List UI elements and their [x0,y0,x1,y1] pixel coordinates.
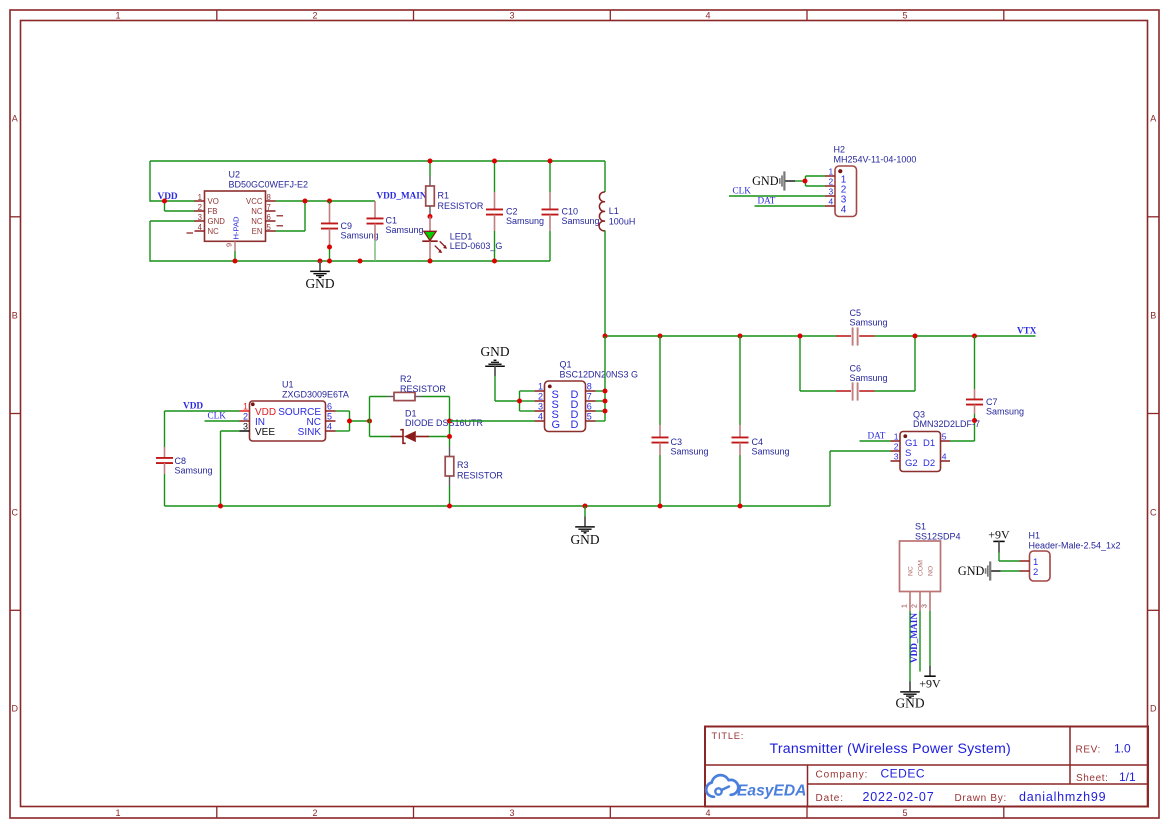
svg-text:1: 1 [115,808,120,818]
svg-text:C: C [12,507,19,517]
svg-text:100uH: 100uH [609,217,636,227]
wire R3 to bottom rail [449,486,451,506]
svg-text:CEDEC: CEDEC [881,767,926,781]
svg-text:1: 1 [198,193,202,202]
connector H2 [825,166,857,217]
wire DAT to H2 pin 4 [755,205,826,207]
svg-text:NC: NC [208,227,220,236]
wire C9 connections [329,201,331,261]
wire R1 top [429,161,431,176]
wire S1 pin3 to +9V [929,611,931,666]
svg-text:L1: L1 [609,206,619,216]
svg-text:VO: VO [208,197,219,206]
svg-text:D: D [571,419,579,431]
svg-text:U1: U1 [282,379,294,389]
svg-text:NC: NC [908,566,915,576]
svg-text:2: 2 [912,604,919,608]
svg-text:8: 8 [587,382,592,392]
svg-text:1: 1 [894,432,899,442]
title block Company cell [816,767,926,781]
svg-text:GND: GND [305,276,334,291]
svg-text:MH254V-11-04-1000: MH254V-11-04-1000 [834,154,917,164]
svg-text:Samsung: Samsung [986,406,1024,416]
svg-text:1: 1 [115,11,120,21]
svg-text:BSC12DN20NS3 G: BSC12DN20NS3 G [560,370,639,380]
label Q1 [560,359,639,379]
wire U1 output tie [336,411,370,431]
capacitor C4 [732,425,790,456]
wire EN tie to VCC [276,201,306,231]
svg-text:FB: FB [208,207,218,216]
inductor L1 [599,161,635,231]
frame row ticks right [1148,217,1159,611]
svg-text:5: 5 [902,808,907,818]
svg-text:6: 6 [587,402,592,412]
junction dot R1 bottom [428,214,433,219]
label Q3 [913,409,980,429]
svg-text:RESISTOR: RESISTOR [457,470,503,480]
label U1 [282,379,349,399]
svg-text:9: 9 [225,243,234,247]
junction dots bottom rail [218,504,743,509]
svg-text:2: 2 [198,203,202,212]
svg-text:3: 3 [243,422,248,432]
svg-text:C3: C3 [671,437,683,447]
svg-text:8: 8 [267,193,271,202]
wire DAT to Q3 G1 [860,440,891,442]
svg-text:Q3: Q3 [913,409,925,419]
svg-text:2: 2 [243,412,248,422]
svg-text:TITLE:: TITLE: [712,731,745,741]
label U2 [229,170,309,190]
svg-text:4: 4 [538,412,543,422]
label S1 [915,521,961,541]
title block TITLE text [712,731,1011,757]
connector H1 [1020,551,1051,581]
svg-text:D1: D1 [923,438,935,449]
capacitor C9 [321,204,379,247]
junction dot H2 gnd [803,179,808,184]
ground flag H1 [958,561,1001,580]
svg-text:2: 2 [312,11,317,21]
svg-text:BD50GC0WEFJ-E2: BD50GC0WEFJ-E2 [229,180,309,190]
svg-text:1.0: 1.0 [1114,742,1131,756]
svg-text:6: 6 [327,402,332,412]
svg-text:4: 4 [829,197,834,207]
svg-text:1: 1 [829,167,834,177]
IC U1 [240,401,336,441]
svg-text:LED1: LED1 [450,232,473,242]
title block border [705,727,1148,807]
junction dots R2/D1 vertical [447,419,452,440]
wire R2 branch up [369,397,371,422]
junction dots top rail [428,159,553,164]
svg-text:COM: COM [918,560,925,576]
wire bottom rail to Q3 S [830,451,891,506]
svg-text:Q1: Q1 [560,359,572,369]
svg-text:VDD_MAIN: VDD_MAIN [909,613,919,663]
svg-text:5: 5 [902,11,907,21]
wire VEE to bottom rail [221,431,240,506]
svg-text:VDD: VDD [183,402,203,412]
junction dots VTX bus [603,334,978,339]
svg-text:VDD_MAIN: VDD_MAIN [376,190,426,200]
svg-text:EN: EN [252,227,263,236]
svg-text:REV:: REV: [1076,745,1101,756]
svg-text:A: A [12,113,18,123]
svg-text:5: 5 [327,412,332,422]
wire C2 top [494,161,496,192]
title block Date cell [816,790,1107,804]
svg-text:danialhmzh99: danialhmzh99 [1019,790,1106,804]
wire C6 loop right [914,336,916,391]
frame column ticks top [217,10,1004,21]
wire C10 bottom [549,231,551,261]
wire H2 gnd to pins 1-2 [795,176,825,186]
svg-text:1: 1 [538,382,543,392]
wire Q1 drains to L1 vertical [596,336,606,421]
junction dot C9 bottom lead [327,245,332,250]
junction dots VCC row [303,199,333,204]
svg-text:VCC: VCC [246,197,263,206]
wire VTX bus right segment [875,335,1036,337]
wire C7 bottom to Q3 [950,414,975,441]
junction dots U1 output [347,419,372,424]
junction dot VDD/pin1 [162,199,167,204]
svg-text:SINK: SINK [298,427,322,438]
svg-text:NC: NC [251,207,263,216]
svg-text:C2: C2 [506,207,518,217]
svg-text:DMN32D2LDF-7: DMN32D2LDF-7 [913,419,980,429]
title block REV cell [1076,742,1132,756]
ground flag H2 [752,171,795,190]
capacitor C7 [966,389,1024,416]
svg-text:GND: GND [752,174,779,188]
svg-text:DAT: DAT [758,195,776,205]
svg-text:CLK: CLK [733,185,752,195]
svg-text:D: D [12,703,19,713]
svg-text:D1: D1 [405,408,417,418]
svg-text:C10: C10 [562,207,579,217]
svg-text:5: 5 [267,223,272,232]
svg-text:1: 1 [243,402,248,412]
svg-text:G: G [552,419,561,431]
svg-text:DIODE DSS16UTR: DIODE DSS16UTR [405,418,484,428]
svg-text:4: 4 [705,11,710,21]
EasyEDA logo [706,775,806,800]
svg-text:Samsung: Samsung [850,317,888,327]
svg-text:Samsung: Samsung [562,216,600,226]
IC U2 [187,191,284,251]
svg-text:Sheet:: Sheet: [1076,773,1109,784]
svg-text:CLK: CLK [208,410,227,420]
svg-text:VEE: VEE [255,427,275,438]
capacitor C1 [367,201,424,240]
svg-text:5: 5 [942,432,947,442]
frame row letters left [12,113,19,713]
capacitor C2 [486,192,544,231]
svg-text:Drawn By:: Drawn By: [955,793,1007,804]
svg-text:R2: R2 [400,374,412,384]
svg-text:1: 1 [902,604,909,608]
svg-text:2022-02-07: 2022-02-07 [863,790,935,804]
svg-text:DAT: DAT [868,430,886,440]
LED LED1 [422,217,437,262]
svg-text:Samsung: Samsung [671,446,709,456]
svg-text:4: 4 [198,223,203,232]
svg-text:GND: GND [958,564,985,578]
diode D1 [370,408,484,443]
wire C3 bottom [659,455,661,506]
svg-text:2: 2 [538,392,543,402]
junction dots bottom rail [233,259,498,264]
wire D1 branch down [369,421,371,437]
svg-text:3: 3 [198,213,202,222]
svg-text:GND: GND [895,696,924,711]
svg-text:Samsung: Samsung [386,225,424,235]
wire U2 VCC output [276,200,376,202]
power flag +9V (S1) [919,666,941,690]
wire C2 bottom [494,231,496,261]
label H1 [1029,531,1121,551]
wire Q1 gate from D1/R3 [450,420,535,422]
capacitor C5 [836,308,888,346]
svg-text:2: 2 [1033,567,1038,578]
svg-text:C5: C5 [850,308,862,318]
svg-text:RESISTOR: RESISTOR [438,201,484,211]
svg-text:2: 2 [829,177,834,187]
svg-text:C1: C1 [386,216,398,226]
svg-text:C4: C4 [752,437,764,447]
svg-text:3: 3 [829,187,834,197]
wire S1 pin2 VDD_MAIN [919,611,921,672]
svg-text:2: 2 [312,808,317,818]
ground flag Q1 [480,344,509,376]
wire U2 GND pin to left [150,221,195,262]
svg-text:+9V: +9V [988,528,1010,542]
resistor R3 [445,447,503,487]
capacitor C8 wires [164,474,166,506]
svg-text:B: B [12,310,18,320]
svg-text:Date:: Date: [816,793,844,804]
wire C6 loop left [799,336,801,391]
title block Sheet cell [1076,770,1136,784]
svg-text:R3: R3 [457,460,469,470]
svg-text:6: 6 [267,213,271,222]
svg-text:GND: GND [208,217,226,226]
svg-text:SS12SDP4: SS12SDP4 [915,531,961,541]
svg-text:3: 3 [538,402,543,412]
svg-text:NO: NO [928,566,935,576]
capacitor C6 [800,364,915,401]
svg-text:1/1: 1/1 [1119,770,1136,784]
svg-text:EasyEDA: EasyEDA [737,783,806,800]
svg-text:7: 7 [587,392,592,402]
svg-text:C6: C6 [850,364,862,374]
svg-text:2: 2 [894,442,899,452]
ground flag bottom [570,506,599,547]
svg-text:RESISTOR: RESISTOR [400,384,446,394]
wire VDD to U1 pin 1 [165,411,240,447]
wire Q1 gnd to S pins [495,376,535,411]
svg-text:Transmitter (Wireless Power Sy: Transmitter (Wireless Power System) [770,741,1011,757]
wire L1 to VTX bus [604,230,606,336]
wire C3 top [659,336,661,425]
junction dots Q1 drains [603,389,608,414]
svg-text:A: A [1150,113,1156,123]
svg-text:GND: GND [480,344,509,359]
pale wire C1 to bottom rail [374,240,376,261]
svg-text:+9V: +9V [919,676,941,690]
wire +9V to H1 pin 1 [999,553,1020,562]
svg-text:C9: C9 [341,221,353,231]
svg-text:Samsung: Samsung [506,216,544,226]
svg-text:7: 7 [267,203,271,212]
svg-text:3: 3 [509,11,514,21]
svg-text:3: 3 [509,808,514,818]
svg-text:B: B [1150,310,1156,320]
wire R2/D1 right vertical [449,397,451,447]
svg-text:Samsung: Samsung [752,446,790,456]
frame column ticks bottom [217,807,1004,819]
frame row letters right [1150,113,1157,713]
label H2 [834,144,917,164]
junction dot Q1 S tie [517,399,522,404]
capacitor C10 [542,192,600,231]
wire top-left vertical [149,161,151,202]
ground flag top block [305,261,334,291]
svg-text:Samsung: Samsung [175,466,213,476]
svg-text:S1: S1 [915,521,926,531]
junction dot C7/Q3 [972,418,977,423]
resistor R1 [426,176,484,216]
svg-text:GND: GND [570,532,599,547]
wire C4 top [739,336,741,425]
svg-text:Company:: Company: [816,770,869,781]
wire U2 pin 9 to bottom rail [234,251,236,261]
svg-text:VDD: VDD [158,192,178,202]
LED1 light arrows [435,241,447,253]
wire S1 pin1 to gnd [909,611,911,682]
resistor R2 [370,374,450,401]
svg-text:C7: C7 [986,397,998,407]
wire top block bottom rail [150,260,550,262]
svg-text:R1: R1 [438,191,450,201]
wire to U2 pin 1 [150,200,195,202]
svg-text:ZXGD3009E6TA: ZXGD3009E6TA [282,390,349,400]
svg-text:Header-Male-2.54_1x2: Header-Male-2.54_1x2 [1029,541,1121,551]
svg-text:D: D [1150,703,1157,713]
wire C4 bottom [739,455,741,506]
wire gnd to H1 pin 2 [1001,570,1020,572]
wire VTX bus left segment [605,335,836,337]
svg-text:C: C [1150,507,1157,517]
svg-text:H-PAD: H-PAD [232,216,241,240]
wire C10 top [549,161,551,192]
capacitor C3 [652,425,709,456]
svg-text:3: 3 [894,452,899,462]
svg-text:Samsung: Samsung [850,373,888,383]
switch S1 [900,541,941,611]
svg-text:5: 5 [587,412,592,422]
wire CLK to H2 pin 3 [729,195,825,197]
svg-text:G2: G2 [905,458,918,469]
svg-text:4: 4 [942,452,947,462]
frame row ticks left [10,217,21,611]
capacitor C8 [156,447,213,476]
frame column numbers bottom [115,808,907,818]
svg-text:NC: NC [251,217,263,226]
svg-text:H2: H2 [834,144,846,154]
svg-text:Samsung: Samsung [341,231,379,241]
wire FB branch [165,201,196,211]
svg-text:C8: C8 [175,456,187,466]
svg-text:U2: U2 [229,170,241,180]
svg-text:VTX: VTX [1017,326,1037,336]
transistor Q3 [891,432,951,472]
svg-text:3: 3 [922,604,929,608]
wire middle bottom rail [165,505,831,507]
svg-text:4: 4 [705,808,710,818]
transistor Q1 [535,381,596,432]
svg-text:H1: H1 [1029,531,1041,541]
ground flag S1 [895,682,924,711]
svg-text:4: 4 [841,204,847,215]
label LED1 [450,232,503,252]
wire CLK to U1 pin 2 [205,420,240,422]
wire C7 top [974,336,976,389]
frame column numbers top [115,11,907,21]
svg-text:D2: D2 [923,458,935,469]
power flag +9V (H1) [988,528,1010,553]
wire VDD top rail [150,160,605,162]
svg-text:4: 4 [327,422,332,432]
